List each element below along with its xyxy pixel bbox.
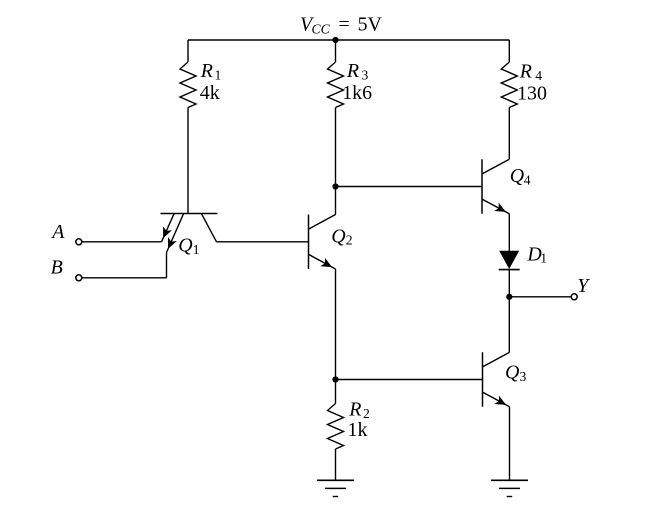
svg-text:Q1: Q1 — [178, 235, 199, 257]
label R3 value 1k6 — [342, 60, 372, 104]
svg-text:Y: Y — [577, 275, 590, 297]
resistor R3 — [328, 62, 344, 108]
wire node to Q3 base — [336, 379, 483, 381]
wire R1 to Q1 base — [187, 108, 189, 214]
svg-text:130: 130 — [517, 82, 547, 104]
wire Q1 collector to Q2 base — [217, 241, 309, 243]
wire node to Q4 base — [336, 186, 483, 188]
node Q2 collector junction — [332, 183, 338, 189]
svg-text:R2: R2 — [348, 399, 370, 421]
wire Q4 emitter to D1 — [508, 214, 510, 251]
node input terminal A — [76, 239, 82, 245]
wire R3 to node — [335, 108, 337, 187]
wire rail to R4 — [508, 40, 510, 62]
resistor R1 — [180, 62, 196, 108]
wire node to R2 — [335, 380, 337, 404]
transistor Q4 — [482, 159, 509, 214]
node VCC junction dot — [332, 37, 338, 43]
wire B riser — [166, 253, 168, 278]
wire output node to terminal Y — [509, 296, 571, 298]
svg-text:R3: R3 — [346, 60, 369, 82]
svg-text:Q4: Q4 — [510, 165, 531, 188]
svg-text:D1: D1 — [526, 244, 547, 266]
wire R4 to Q4 collector — [508, 108, 510, 160]
svg-text:R1: R1 — [200, 60, 222, 82]
svg-text:VCC=5V: VCC=5V — [300, 14, 383, 37]
wire rail to R3 — [335, 40, 337, 62]
label R2 value 1k — [348, 399, 371, 442]
wire output node to Q3 collector — [508, 297, 510, 352]
node Q3 base junction — [332, 376, 338, 382]
svg-text:Q2: Q2 — [331, 225, 353, 247]
wire rail to R1 — [187, 40, 189, 62]
svg-text:Q3: Q3 — [505, 362, 527, 385]
svg-text:1k: 1k — [348, 419, 368, 441]
wire input A to Q1 emitter1 — [82, 241, 162, 243]
svg-text:R4: R4 — [519, 61, 543, 83]
transistor Q3 — [483, 352, 510, 407]
resistor R4 — [501, 62, 517, 108]
resistor R2 — [328, 404, 344, 450]
ground under Q3 — [491, 480, 528, 496]
wire D1 to output node — [508, 270, 510, 297]
wire Q3 emitter to ground — [509, 407, 511, 481]
transistor Q2 — [309, 215, 336, 270]
wire VCC power rail — [188, 39, 509, 41]
node output terminal Y — [571, 294, 577, 300]
svg-text:A: A — [50, 221, 65, 243]
svg-text:B: B — [51, 256, 63, 278]
wire node to Q2 collector — [335, 187, 337, 215]
wire Q2 emitter down — [335, 269, 337, 380]
svg-text:4k: 4k — [200, 82, 220, 104]
wire R2 to ground — [335, 449, 337, 480]
diode D1 — [499, 251, 520, 270]
ground under R2 — [317, 480, 354, 496]
svg-text:1k6: 1k6 — [342, 82, 372, 104]
label R4 value 130 — [517, 61, 547, 105]
label R1 value 4k — [200, 60, 222, 104]
node output junction Y — [506, 294, 512, 300]
wire input B to Q1 emitter2 — [82, 277, 167, 279]
transistor Q1 — [161, 214, 218, 253]
node input terminal B — [76, 275, 82, 281]
